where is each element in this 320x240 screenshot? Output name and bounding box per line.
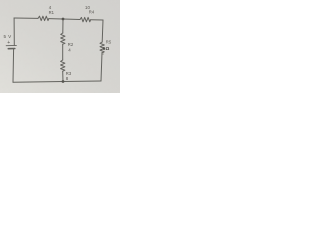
resistor R2 <box>61 33 65 44</box>
wire battery to top-left corner <box>13 18 15 45</box>
wire right side upper <box>101 20 104 42</box>
svg-text:R1: R1 <box>49 10 55 15</box>
node B (bottom junction dot) <box>62 80 65 83</box>
wire left side lower <box>12 49 15 82</box>
resistor R1 <box>38 16 49 20</box>
wire node A to R4 <box>63 18 80 21</box>
resistor R4 <box>80 17 91 21</box>
wire right side lower <box>101 53 102 81</box>
resistor R3 <box>61 60 65 71</box>
battery V1 plus plate <box>6 44 16 46</box>
wire (scan texture overlay) <box>0 0 120 93</box>
node A (top junction dot) <box>62 18 65 21</box>
svg-text:+: + <box>7 40 10 46</box>
resistor R5 <box>100 42 104 53</box>
svg-text:R5: R5 <box>106 39 112 44</box>
svg-text:5 V: 5 V <box>4 34 13 39</box>
wire R1 to node A <box>49 18 63 20</box>
wire top-left segment <box>14 17 38 19</box>
wire bottom <box>13 81 101 82</box>
svg-text:R2: R2 <box>68 42 74 47</box>
wire between R2 and R3 <box>62 44 64 60</box>
svg-text:R4: R4 <box>89 10 95 15</box>
wire R4 to top-right corner <box>91 19 103 21</box>
wire R3 to bottom node <box>62 71 64 81</box>
battery V1 minus plate <box>8 48 15 50</box>
wire middle branch upper <box>62 19 64 33</box>
